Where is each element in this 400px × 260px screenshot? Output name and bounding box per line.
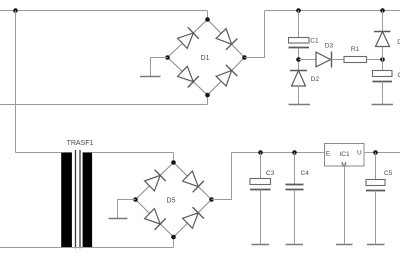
diode bridge D5	[133, 160, 214, 239]
ground below D2	[289, 104, 311, 106]
node junction J8	[373, 150, 378, 155]
wire secondary top lead	[92, 152, 173, 154]
ground at D1 left node	[140, 58, 168, 77]
svg-text:C5: C5	[384, 170, 393, 177]
svg-text:M: M	[341, 161, 346, 168]
svg-text:D2: D2	[311, 76, 320, 83]
svg-text:C4: C4	[301, 170, 310, 177]
wire bottom section rail to IC1	[232, 152, 325, 154]
wire riser to D5 top node	[173, 153, 175, 163]
svg-text:D1: D1	[201, 55, 210, 62]
svg-text:D5: D5	[167, 197, 176, 204]
capacitor C3	[250, 170, 275, 190]
wire riser D1 bottom node to rail	[207, 95, 209, 105]
wire D2 to ground	[298, 86, 300, 104]
ground below C3	[252, 244, 270, 246]
node junction J2	[296, 8, 301, 13]
node junction J6	[258, 150, 263, 155]
node junction J1	[13, 8, 18, 13]
svg-text:C1: C1	[310, 38, 319, 45]
wire left vertical to transformer primary	[15, 11, 17, 153]
wire primary top lead	[16, 152, 62, 154]
wire top rail to D4	[382, 11, 384, 32]
transformer TRASF1	[61, 140, 93, 248]
diode D2	[290, 71, 319, 87]
diode bridge D1	[165, 17, 247, 97]
node junction J3	[380, 8, 385, 13]
wire C5 to ground	[375, 191, 377, 244]
wire D4 to junction	[382, 47, 384, 71]
wire C6 to ground	[382, 82, 384, 105]
capacitor C6 (label clipped at edge)	[373, 71, 400, 82]
wire D3 anode	[299, 59, 317, 61]
svg-text:TRASF1: TRASF1	[67, 140, 94, 147]
wire C3 tap	[260, 153, 262, 179]
ground below C4	[286, 244, 304, 246]
ground below C6	[372, 104, 394, 106]
wire C3 to ground	[260, 190, 262, 244]
wire C1 top tap	[298, 11, 300, 38]
ground below IC1	[336, 244, 353, 246]
wire rail right of IC1	[364, 152, 400, 154]
wire C4 to ground	[294, 190, 296, 244]
svg-text:E: E	[326, 150, 331, 157]
wire riser D5 bottom node	[173, 237, 175, 248]
wire AC rail 2 (to D1 bottom)	[0, 104, 208, 106]
wire bottom lead rail	[0, 247, 174, 249]
svg-text:IC1: IC1	[340, 151, 351, 158]
wire D5 right node to bottom rail	[212, 153, 232, 200]
wire R1 to right column	[367, 59, 383, 61]
resistor R1	[344, 46, 367, 63]
wire D1 right node to top rail right	[245, 11, 265, 58]
node junction J4	[296, 57, 301, 62]
capacitor C4	[286, 170, 310, 190]
capacitor C1	[289, 38, 319, 48]
ground at D5 left node	[109, 200, 136, 219]
ground below C5	[367, 244, 385, 246]
diode D4 (label clipped at edge)	[374, 32, 400, 47]
wire riser to D1 top node	[207, 11, 209, 20]
wire top rail left (AC line 1)	[0, 10, 208, 12]
wire D3 to R1	[332, 59, 345, 61]
svg-text:D3: D3	[325, 43, 334, 50]
diode D3	[316, 43, 334, 68]
svg-text:U: U	[357, 150, 362, 157]
capacitor C5	[366, 170, 393, 191]
regulator IC1	[325, 144, 365, 169]
wire IC1 M pin to ground	[344, 166, 346, 244]
node junction J7	[292, 150, 297, 155]
wire C4 tap	[294, 153, 296, 185]
svg-text:C3: C3	[266, 170, 275, 177]
wire top rail right (DC+)	[265, 10, 400, 12]
svg-text:R1: R1	[351, 46, 360, 53]
wire C5 tap	[375, 153, 377, 180]
node junction J5	[380, 57, 385, 62]
wire C1 bottom to junction and to D2	[298, 48, 300, 71]
